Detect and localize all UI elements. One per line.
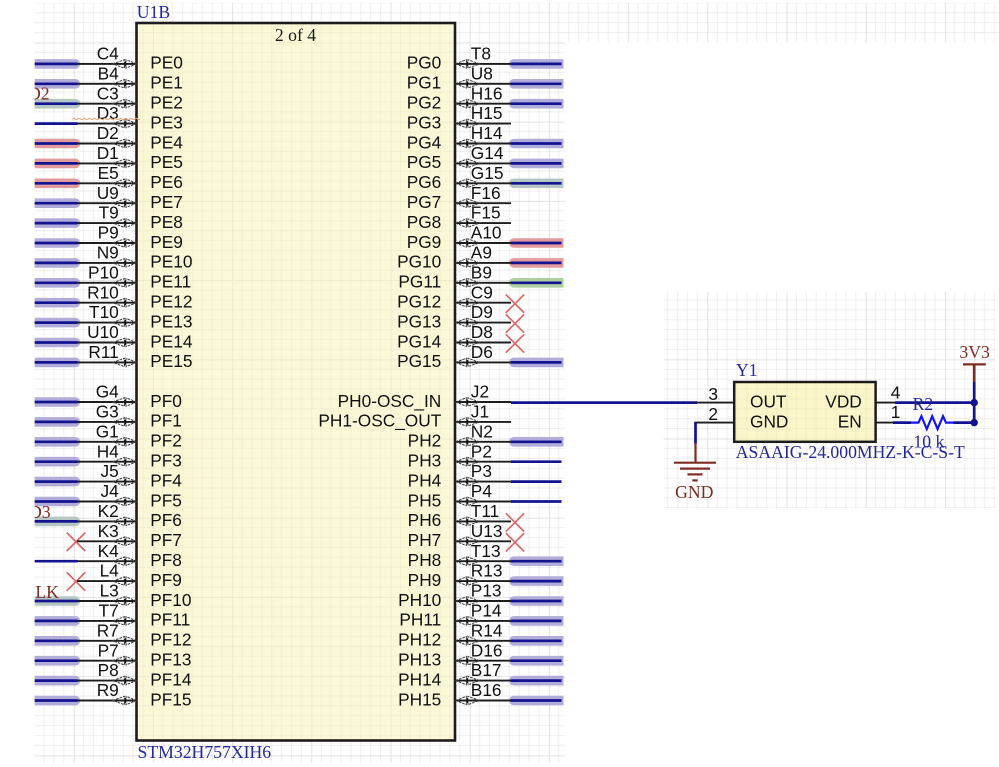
svg-text:PE13: PE13 — [150, 311, 192, 331]
svg-text:G1: G1 — [96, 421, 119, 441]
svg-text:D6: D6 — [471, 342, 493, 362]
pin PE12 (R10) — [35, 282, 193, 311]
svg-text:PH11: PH11 — [399, 610, 441, 630]
svg-text:PE6: PE6 — [150, 172, 183, 192]
pin PF4 (J5) — [35, 461, 183, 490]
svg-text:G3: G3 — [96, 402, 119, 422]
wire Y1 VDD to junction — [895, 401, 974, 404]
pin PG2 (H16) — [407, 83, 564, 112]
pin PG7 (F16) — [407, 183, 511, 212]
svg-text:P10: P10 — [88, 262, 119, 282]
svg-text:P2: P2 — [471, 441, 492, 461]
pin PG5 (G14) — [407, 143, 564, 172]
svg-text:F16: F16 — [471, 183, 501, 203]
pin PF5 (J4) — [35, 481, 182, 510]
pin PE7 (U9) — [35, 183, 183, 212]
svg-text:G14: G14 — [471, 143, 504, 163]
svg-text:OUT: OUT — [750, 391, 787, 411]
pin PF1 (G3) — [35, 402, 182, 431]
U1B body fill (over grid) — [137, 23, 456, 741]
svg-text:PE5: PE5 — [150, 152, 183, 172]
svg-text:PG10: PG10 — [397, 252, 441, 272]
pin PE2 (C3) — [35, 83, 183, 112]
svg-text:PG7: PG7 — [407, 192, 442, 212]
svg-text:C9: C9 — [471, 282, 493, 302]
pin PE8 (T9) — [35, 203, 183, 232]
pin PF14 (P8) — [35, 660, 192, 689]
compile-error squiggle on PE3 — [73, 118, 141, 119]
grid region around Y1 — [664, 292, 996, 508]
pin PH0-OSC_IN (J2) — [338, 382, 511, 411]
pin PH13 (D16) — [398, 640, 563, 669]
svg-text:PE1: PE1 — [150, 73, 183, 93]
svg-text:PE14: PE14 — [150, 331, 193, 351]
svg-text:F15: F15 — [471, 203, 501, 223]
svg-text:PH3: PH3 — [408, 451, 442, 471]
Y1 pin 3 OUT — [696, 402, 734, 404]
svg-text:PG1: PG1 — [407, 73, 442, 93]
svg-text:PH13: PH13 — [398, 650, 441, 670]
svg-text:PH2: PH2 — [408, 431, 442, 451]
svg-text:PE0: PE0 — [150, 53, 183, 73]
svg-text:GND: GND — [675, 482, 714, 502]
svg-text:PG15: PG15 — [397, 351, 441, 371]
svg-text:PF11: PF11 — [150, 610, 190, 630]
svg-text:H16: H16 — [471, 83, 503, 103]
pin PG14 (D8) — [397, 322, 524, 353]
power 3V3 symbol — [973, 364, 976, 382]
svg-text:PG14: PG14 — [397, 331, 442, 351]
IC U1B border — [137, 23, 456, 741]
faint grid inside U1B — [137, 23, 456, 741]
svg-text:K2: K2 — [98, 501, 119, 521]
resistor R2 — [911, 416, 954, 429]
svg-text:PG2: PG2 — [407, 93, 442, 113]
svg-text:R7: R7 — [97, 620, 119, 640]
svg-text:STM32H757XIH6: STM32H757XIH6 — [138, 742, 272, 762]
Y1 pin 4 VDD — [876, 402, 896, 404]
pin PF11 (T7) — [35, 601, 191, 630]
svg-text:T9: T9 — [99, 203, 119, 223]
svg-text:PH9: PH9 — [408, 570, 442, 590]
pin PF13 (P7) — [35, 640, 192, 669]
svg-text:J4: J4 — [101, 481, 120, 501]
svg-text:P8: P8 — [98, 660, 119, 680]
svg-text:PE4: PE4 — [150, 132, 183, 152]
svg-text:EN: EN — [838, 411, 862, 431]
pin PG8 (F15) — [407, 203, 511, 232]
pin PH4 (P3) — [408, 461, 562, 490]
svg-text:PG0: PG0 — [407, 53, 442, 73]
svg-text:N2: N2 — [471, 421, 493, 441]
svg-text:PE3: PE3 — [150, 112, 183, 132]
svg-text:PH1-OSC_OUT: PH1-OSC_OUT — [318, 411, 441, 431]
svg-text:J5: J5 — [101, 461, 119, 481]
svg-text:R11: R11 — [88, 342, 118, 362]
svg-text:T13: T13 — [471, 541, 501, 561]
svg-text:TRACECLK: TRACECLK — [0, 582, 59, 602]
pin PF15 (R9) — [35, 680, 192, 709]
svg-text:PF14: PF14 — [150, 669, 192, 689]
Y1 pin 2 GND — [694, 422, 734, 424]
svg-text:TRACED3: TRACED3 — [0, 502, 51, 522]
wire vertical to 3V3 — [973, 382, 976, 423]
wire Y1 GND pin to ground — [694, 423, 697, 444]
pin PG9 (A10) — [407, 223, 564, 252]
junction dot lower — [971, 419, 978, 426]
svg-text:P14: P14 — [471, 601, 502, 621]
svg-text:U13: U13 — [471, 521, 503, 541]
wire EN net segments — [893, 421, 911, 424]
pin PE14 (U10) — [35, 322, 193, 351]
svg-text:C4: C4 — [97, 44, 119, 64]
svg-text:H4: H4 — [97, 441, 119, 461]
pin PH6 (T11) — [408, 501, 525, 532]
svg-text:U1B: U1B — [137, 2, 170, 22]
svg-text:PE15: PE15 — [150, 351, 192, 371]
svg-text:PF8: PF8 — [150, 550, 182, 570]
svg-text:Y1: Y1 — [736, 360, 758, 380]
pin PG3 (H15) — [407, 103, 511, 132]
svg-text:PH10: PH10 — [398, 590, 441, 610]
svg-text:PH8: PH8 — [408, 550, 442, 570]
svg-text:PH4: PH4 — [408, 470, 442, 490]
svg-text:PF6: PF6 — [150, 510, 182, 530]
svg-text:R14: R14 — [471, 620, 503, 640]
svg-text:A10: A10 — [471, 223, 502, 243]
pin PH5 (P4) — [408, 481, 562, 510]
svg-text:U10: U10 — [87, 322, 119, 342]
svg-text:R9: R9 — [97, 680, 119, 700]
pin PG15 (D6) — [397, 342, 563, 371]
svg-text:P13: P13 — [471, 581, 502, 601]
svg-text:T8: T8 — [471, 44, 491, 64]
svg-text:PE8: PE8 — [150, 212, 183, 232]
pin PE1 (B4) — [35, 63, 183, 92]
junction dot upper — [971, 399, 978, 406]
svg-text:PE10: PE10 — [150, 252, 192, 272]
faint grid inside Y1 — [734, 382, 875, 442]
svg-text:PE2: PE2 — [150, 93, 183, 113]
svg-text:PG3: PG3 — [407, 112, 442, 132]
pin PH2 (N2) — [408, 421, 564, 450]
svg-text:3: 3 — [708, 384, 718, 404]
svg-text:L4: L4 — [100, 561, 120, 581]
pin PF3 (H4) — [35, 441, 182, 470]
svg-text:H15: H15 — [471, 103, 503, 123]
svg-text:PG8: PG8 — [407, 212, 442, 232]
svg-text:PH7: PH7 — [408, 530, 442, 550]
pin PE4 (D2) — [35, 123, 184, 152]
svg-text:J1: J1 — [471, 402, 489, 422]
pin PE11 (P10) — [35, 262, 192, 291]
svg-text:1: 1 — [891, 402, 901, 422]
ground GND symbol — [674, 443, 716, 481]
svg-text:PF15: PF15 — [150, 689, 191, 709]
svg-text:U9: U9 — [97, 183, 119, 203]
pin PH14 (B17) — [398, 660, 563, 689]
svg-text:B9: B9 — [471, 262, 492, 282]
svg-text:10 k: 10 k — [913, 432, 944, 452]
pin PG13 (D9) — [397, 302, 524, 333]
svg-text:PH15: PH15 — [398, 689, 441, 709]
svg-text:PE11: PE11 — [150, 272, 191, 292]
svg-text:U8: U8 — [471, 63, 493, 83]
svg-text:H14: H14 — [471, 123, 503, 143]
svg-text:PF9: PF9 — [150, 570, 182, 590]
svg-text:TRACED2: TRACED2 — [0, 84, 50, 104]
pin PG12 (C9) — [397, 282, 524, 313]
pin PH1-OSC_OUT (J1) — [318, 402, 511, 431]
svg-text:R13: R13 — [471, 561, 503, 581]
svg-text:D3: D3 — [97, 103, 119, 123]
svg-text:PG12: PG12 — [397, 292, 441, 312]
grid region left — [35, 3, 565, 763]
pin PE9 (P9) — [35, 223, 183, 252]
oscillator Y1 body fill — [734, 382, 875, 442]
svg-text:PH14: PH14 — [398, 669, 442, 689]
pin PE10 (N9) — [35, 243, 193, 272]
pin PE6 (E5) — [35, 163, 183, 192]
svg-text:G4: G4 — [96, 382, 119, 402]
svg-text:D16: D16 — [471, 640, 503, 660]
svg-text:4: 4 — [891, 383, 901, 403]
svg-text:PE9: PE9 — [150, 232, 183, 252]
pin PH9 (R13) — [408, 561, 564, 590]
svg-text:P7: P7 — [98, 640, 119, 660]
pin PH7 (U13) — [408, 521, 525, 552]
svg-text:B16: B16 — [471, 680, 502, 700]
pin PE5 (D1) — [35, 143, 183, 172]
svg-text:G15: G15 — [471, 163, 504, 183]
svg-text:3V3: 3V3 — [959, 342, 990, 362]
svg-text:L3: L3 — [100, 581, 119, 601]
svg-text:T10: T10 — [89, 302, 119, 322]
pin PH8 (T13) — [408, 541, 564, 570]
pin PE3 (D3) — [35, 103, 183, 132]
svg-text:PH0-OSC_IN: PH0-OSC_IN — [338, 391, 442, 411]
pin PF7 (K3) — [67, 521, 182, 551]
svg-text:PF13: PF13 — [150, 650, 191, 670]
svg-text:PE7: PE7 — [150, 192, 183, 212]
IC U1B body fill — [137, 23, 456, 741]
svg-text:B17: B17 — [471, 660, 502, 680]
svg-text:PF3: PF3 — [150, 451, 182, 471]
svg-text:PH12: PH12 — [398, 630, 441, 650]
pin PH15 (B16) — [398, 680, 563, 709]
pin PG1 (U8) — [407, 63, 564, 92]
svg-text:PF12: PF12 — [150, 630, 191, 650]
pin PG11 (B9) — [398, 262, 563, 291]
pin PH11 (P14) — [399, 601, 563, 630]
pin PE15 (R11) — [35, 342, 193, 371]
svg-text:PH6: PH6 — [408, 510, 442, 530]
svg-text:PF4: PF4 — [150, 470, 182, 490]
svg-text:PF0: PF0 — [150, 391, 182, 411]
pin PG10 (A9) — [397, 243, 563, 272]
svg-text:N9: N9 — [97, 243, 119, 263]
svg-text:2 of 4: 2 of 4 — [275, 25, 316, 45]
svg-text:P4: P4 — [471, 481, 493, 501]
pin PF12 (R7) — [35, 620, 192, 649]
svg-text:B4: B4 — [98, 63, 120, 83]
svg-text:T11: T11 — [471, 501, 500, 521]
svg-text:PG6: PG6 — [407, 172, 442, 192]
svg-text:D2: D2 — [97, 123, 119, 143]
pin PF0 (G4) — [35, 382, 182, 411]
svg-text:PF2: PF2 — [150, 431, 182, 451]
pin PG4 (H14) — [407, 123, 564, 152]
svg-text:D9: D9 — [471, 302, 493, 322]
pin PF10 (L3) — [35, 581, 192, 610]
svg-text:D8: D8 — [471, 322, 493, 342]
svg-text:K3: K3 — [98, 521, 119, 541]
svg-text:PF7: PF7 — [150, 530, 182, 550]
svg-text:R10: R10 — [87, 282, 119, 302]
svg-text:PG11: PG11 — [398, 272, 441, 292]
pin PF8 (K4) — [35, 541, 182, 570]
svg-text:E5: E5 — [98, 163, 119, 183]
svg-text:K4: K4 — [98, 541, 120, 561]
pin PF6 (K2) — [35, 501, 182, 530]
svg-text:T7: T7 — [99, 601, 119, 621]
svg-text:PG13: PG13 — [397, 311, 441, 331]
pin PF9 (L4) — [67, 561, 182, 591]
svg-text:VDD: VDD — [825, 391, 862, 411]
svg-text:PG9: PG9 — [407, 232, 442, 252]
pin PE13 (T10) — [35, 302, 193, 331]
oscillator Y1 border — [734, 382, 875, 442]
svg-text:P9: P9 — [98, 223, 119, 243]
svg-text:R2: R2 — [913, 394, 934, 414]
Y1 body fill (over grid) — [734, 382, 875, 442]
svg-text:PH5: PH5 — [408, 490, 442, 510]
svg-text:PF1: PF1 — [150, 411, 182, 431]
svg-text:2: 2 — [708, 404, 718, 424]
svg-text:A9: A9 — [471, 243, 492, 263]
wire PH0-OSC_IN to Y1 pin3 — [511, 401, 697, 404]
pin PH3 (P2) — [408, 441, 562, 470]
Y1 pin 1 EN — [876, 422, 894, 424]
svg-text:GND: GND — [750, 411, 788, 431]
svg-text:PG5: PG5 — [407, 152, 442, 172]
pin PH12 (R14) — [398, 620, 563, 649]
svg-text:D1: D1 — [97, 143, 119, 163]
svg-text:C3: C3 — [97, 83, 119, 103]
svg-text:PF10: PF10 — [150, 590, 191, 610]
pin PG0 (T8) — [407, 44, 564, 73]
svg-text:PE12: PE12 — [150, 292, 192, 312]
svg-text:PF5: PF5 — [150, 490, 182, 510]
svg-text:J2: J2 — [471, 382, 489, 402]
grid region top strip — [565, 3, 999, 43]
pin PH10 (P13) — [398, 581, 563, 610]
pin PG6 (G15) — [407, 163, 564, 192]
pin PF2 (G1) — [35, 421, 182, 450]
pin PE0 (C4) — [35, 44, 183, 73]
svg-text:P3: P3 — [471, 461, 492, 481]
svg-text:PG4: PG4 — [407, 132, 442, 152]
